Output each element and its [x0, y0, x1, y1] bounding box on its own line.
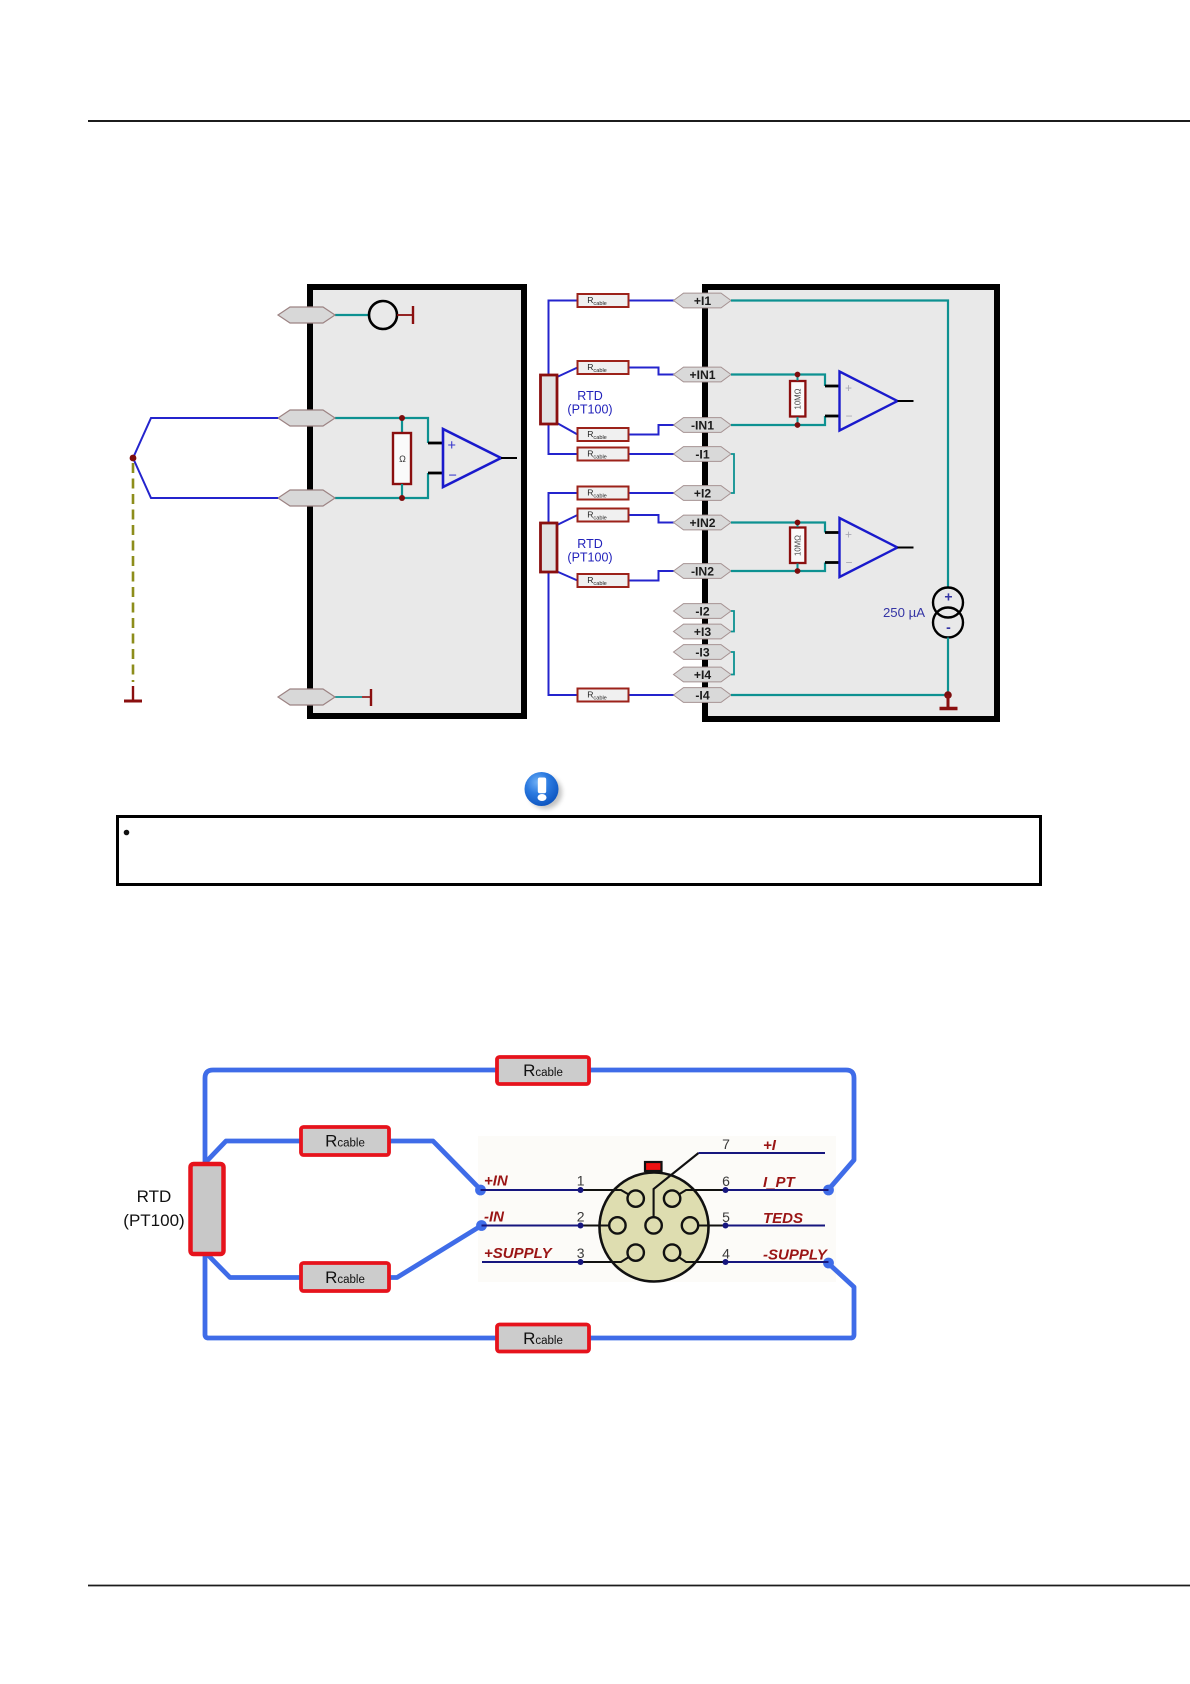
wire black pin2 lead — [581, 1224, 618, 1226]
resistor 10MOhm R2 — [790, 528, 805, 564]
svg-text:(PT100): (PT100) — [567, 403, 612, 417]
svg-text:(PT100): (PT100) — [567, 551, 612, 565]
module box U2 (right DAQ block) — [705, 287, 997, 719]
wire black pin6 lead — [672, 1190, 725, 1199]
net tag -IN1 — [674, 418, 732, 433]
top horizontal rule — [88, 120, 1190, 122]
junction node B — [399, 495, 405, 501]
wire blue top loop (Rcable top run) — [205, 1070, 854, 1190]
resistor Rcable8 (-I4 row) — [578, 689, 629, 702]
wire teal resistor bottom to node B — [401, 484, 403, 498]
net tag -IN2 — [674, 564, 732, 579]
junction pin6 dot — [723, 1187, 729, 1193]
wire blue Rcable7 to -IN2 tag — [629, 571, 677, 581]
pin 2 — [609, 1217, 625, 1233]
wire black pin3 lead — [581, 1253, 636, 1262]
pin 4 — [664, 1244, 680, 1260]
wire teal -I2 to +I3 link — [731, 611, 734, 632]
junction pin4 dot — [723, 1259, 729, 1265]
junction -IN1 node — [795, 422, 801, 428]
RTD2 sensor (PT100) — [541, 523, 558, 572]
note text box — [118, 817, 1041, 885]
junction pin1 dot — [578, 1187, 584, 1193]
connector key mark — [645, 1162, 662, 1171]
svg-text:6: 6 — [722, 1173, 730, 1189]
op-amp U1A — [443, 429, 501, 487]
wire teal -IN2 to amp2 — [731, 563, 825, 572]
wire black stub amp2 minus — [825, 561, 840, 564]
wire blue sensor plus lead — [133, 418, 278, 458]
bullet point — [124, 830, 130, 836]
wire blue Rcable3 to -IN1 tag — [629, 425, 677, 435]
wire black amp1 output — [898, 400, 914, 402]
wire blue RTD2 top to Rcable row6 — [557, 515, 578, 525]
wire blue Rcable4 to -I1 tag — [629, 453, 677, 455]
net tag +I1 — [674, 293, 732, 308]
junction ground node — [944, 691, 952, 699]
net tag +I4 — [674, 667, 732, 682]
junction +IN1 node — [795, 372, 801, 378]
wire blue RTD bottom to Rcable lower-left — [205, 1252, 301, 1278]
wire blue bottom loop (Rcable bottom run) — [205, 1254, 854, 1338]
svg-text:(PT100): (PT100) — [123, 1211, 184, 1230]
wire teal -I3 to +I4 link — [731, 652, 734, 675]
wire navy pin3 row left — [482, 1261, 581, 1263]
connector pad P4 — [278, 689, 335, 705]
svg-text:RTD: RTD — [577, 389, 602, 403]
wire black pin1 lead — [581, 1190, 636, 1199]
svg-text:+SUPPLY: +SUPPLY — [484, 1245, 554, 1262]
wire black opamp output — [501, 457, 517, 459]
svg-text:+: + — [944, 589, 952, 605]
wire blue Rcable1 to +I1 tag — [629, 300, 677, 302]
svg-text:-I2: -I2 — [695, 604, 709, 618]
svg-text:+I: +I — [763, 1137, 777, 1154]
wire blue RTD1 bottom to Rcable row3 — [557, 423, 578, 435]
resistor Rcable5 (+I2 row) — [578, 487, 629, 500]
wire blue Rcable2 to +IN1 tag — [629, 368, 677, 375]
wire blue Rcable upper-left to +IN node — [389, 1141, 481, 1190]
svg-text:TEDS: TEDS — [763, 1210, 803, 1227]
wire teal node A to opamp corner — [402, 418, 428, 443]
svg-text:10MΩ: 10MΩ — [794, 388, 803, 409]
net tag +IN1 — [674, 367, 732, 382]
svg-text:+I1: +I1 — [694, 294, 712, 308]
wire teal stub resistor R2 top — [797, 523, 799, 528]
wire teal +IN1 to amp1 — [731, 375, 825, 387]
resistor Rcable4 (-I1 row) — [578, 448, 629, 461]
resistor Rcable bottom — [497, 1325, 589, 1352]
wire teal -I4 return — [731, 694, 948, 696]
junction +IN node — [475, 1185, 486, 1196]
junction pin2 dot — [578, 1223, 584, 1229]
op-amp U2A — [840, 372, 898, 431]
svg-text:-IN1: -IN1 — [691, 418, 714, 432]
svg-text:−: − — [846, 556, 853, 570]
wire blue Rcable8 to -I4 tag — [629, 694, 677, 696]
wire black stub amp2 plus — [825, 531, 840, 534]
net tag -I4 — [674, 688, 732, 703]
wire blue RTD1 top to Rcable row2 — [557, 368, 578, 378]
svg-text:3: 3 — [577, 1245, 585, 1261]
svg-text:-IN2: -IN2 — [691, 564, 714, 578]
wire black pin7 lead — [654, 1153, 699, 1225]
svg-text:RTD: RTD — [577, 537, 602, 551]
svg-text:+: + — [845, 528, 852, 542]
bottom horizontal rule — [88, 1585, 1190, 1587]
svg-text:−: − — [846, 409, 853, 423]
note icon shadow — [529, 776, 562, 809]
net tag -I1 — [674, 447, 732, 462]
connector graphic pale panel — [478, 1136, 836, 1282]
terminator bar T2 — [370, 689, 372, 706]
wire teal +IN2 to amp2 — [731, 523, 825, 533]
wire teal pad4 stub — [335, 696, 362, 698]
wire blue ch1 bus +I1 to RTD1 top — [549, 301, 578, 376]
svg-text:1: 1 — [577, 1173, 585, 1189]
wire blue RTD1 bottom bus to -I1 Rcable — [549, 424, 578, 454]
current source I1 250uA — [933, 588, 963, 618]
resistor Rcable lower-left — [301, 1263, 389, 1291]
note icon exclamation — [538, 778, 546, 794]
wire teal pad2 to node A — [335, 417, 402, 419]
wire blue Rcable5 to +I2 tag — [629, 492, 677, 494]
wire black pin5 lead — [690, 1224, 726, 1226]
wire navy pin4 row right — [726, 1261, 829, 1263]
wire teal +I1 to current source bus — [731, 301, 948, 588]
wire blue Rcable lower-left to -IN node — [389, 1226, 482, 1278]
svg-text:4: 4 — [722, 1246, 730, 1262]
resistor Rcable upper-left — [301, 1127, 389, 1155]
wire blue RTD2 bottom to Rcable row7 — [557, 572, 578, 581]
wire teal stub resistor R1 top — [797, 375, 799, 381]
wire navy pin1 row left — [481, 1189, 581, 1191]
junction pin5 dot — [723, 1223, 729, 1229]
resistor Rcable2 (+IN1 row) — [578, 361, 629, 374]
wire black amp2 output — [898, 547, 914, 549]
RTD1 sensor (PT100) — [541, 375, 558, 424]
svg-text:+: + — [448, 438, 456, 454]
net tag -I2 — [674, 604, 732, 619]
pin 7 center — [645, 1217, 661, 1233]
svg-text:-I3: -I3 — [695, 645, 709, 659]
wire navy pin7 row +I — [699, 1152, 826, 1154]
meter circle M1 — [369, 301, 397, 329]
wire navy pin2 row left — [482, 1225, 581, 1227]
RTD sensor body — [191, 1164, 224, 1254]
wire blue RTD top to Rcable upper-left — [205, 1141, 301, 1163]
svg-text:+I3: +I3 — [694, 625, 712, 639]
wire blue ch2 bus +I2 to RTD2 top — [549, 493, 578, 523]
op-amp U2B — [840, 518, 898, 577]
connector body M12 — [600, 1173, 709, 1282]
wire dashed shield — [132, 463, 135, 682]
svg-text:+IN: +IN — [484, 1173, 509, 1190]
svg-text:-SUPPLY: -SUPPLY — [763, 1247, 829, 1264]
wire teal -IN1 to amp1 — [731, 416, 825, 425]
wire black pin4 lead — [672, 1253, 725, 1262]
wire black stub to opamp plus — [428, 442, 444, 445]
junction I_PT node — [823, 1185, 834, 1196]
pin 6 — [664, 1190, 680, 1206]
resistor Rcable6 (+IN2 row) — [578, 509, 629, 522]
svg-text:-: - — [946, 619, 951, 635]
pin 5 — [682, 1217, 698, 1233]
resistor Rcable7 (-IN2 row) — [578, 574, 629, 587]
svg-text:+IN1: +IN1 — [689, 368, 715, 382]
svg-text:-I1: -I1 — [695, 447, 709, 461]
wire navy pin5 row right TEDS — [726, 1225, 826, 1227]
wire black stub amp1 minus — [825, 415, 840, 418]
junction sensor node — [130, 455, 137, 462]
wire dark red to terminator — [362, 696, 371, 698]
svg-text:+I2: +I2 — [694, 486, 712, 500]
wire black stub amp1 plus — [825, 385, 840, 388]
svg-text:2: 2 — [577, 1209, 585, 1225]
svg-text:5: 5 — [722, 1209, 730, 1225]
connector pad P1 — [278, 307, 335, 323]
net tag +IN2 — [674, 515, 732, 530]
ground GND2 — [947, 695, 950, 707]
wire teal current source to ground — [947, 638, 949, 696]
net tag +I2 — [674, 486, 732, 501]
resistor R-ohm — [393, 433, 411, 484]
wire blue RTD2 bottom bus to -I4 Rcable — [549, 572, 578, 695]
wire teal pad1 to meter — [335, 314, 369, 316]
net tag +I3 — [674, 624, 732, 639]
svg-text:Ω: Ω — [399, 454, 406, 464]
junction -IN node — [476, 1220, 487, 1231]
module box U1 (left DAQ block) — [310, 287, 524, 716]
svg-text:7: 7 — [722, 1136, 730, 1152]
note icon circle — [525, 772, 559, 806]
resistor Rcable1 (+I1 row) — [578, 294, 629, 307]
resistor Rcable top — [497, 1057, 589, 1084]
wire teal pad3 to node B — [335, 497, 402, 499]
junction -IN2 node — [795, 568, 801, 574]
svg-text:+: + — [845, 381, 852, 395]
wire teal node A to resistor top — [401, 418, 403, 434]
wire teal -I1 to +I2 link — [731, 454, 734, 493]
svg-text:-I4: -I4 — [695, 688, 709, 702]
wire navy pin6 row right — [726, 1189, 829, 1191]
svg-text:10MΩ: 10MΩ — [794, 535, 803, 556]
svg-text:I_PT: I_PT — [763, 1174, 797, 1191]
resistor 10MOhm R1 — [790, 381, 805, 417]
junction node A — [399, 415, 405, 421]
svg-text:+I4: +I4 — [694, 668, 712, 682]
ground GND1 — [132, 686, 134, 700]
svg-text:-IN: -IN — [484, 1209, 505, 1226]
connector pad P3 — [278, 490, 335, 506]
wire teal node B to opamp corner — [402, 473, 428, 498]
svg-text:+IN2: +IN2 — [689, 516, 715, 530]
junction +IN2 node — [795, 520, 801, 526]
net tag -I3 — [674, 645, 732, 660]
pin 1 — [628, 1190, 644, 1206]
wire blue Rcable6 to +IN2 tag — [629, 515, 677, 523]
svg-text:RTD: RTD — [137, 1187, 172, 1206]
junction pin3 dot — [578, 1259, 584, 1265]
wire black stub to opamp minus — [428, 472, 444, 475]
wire dark red meter to terminator — [397, 314, 413, 316]
resistor Rcable3 (-IN1 row) — [578, 428, 629, 441]
terminator bar T1 — [412, 306, 414, 324]
svg-text:−: − — [449, 468, 457, 484]
junction -SUPPLY node — [823, 1258, 834, 1269]
pin 3 — [628, 1244, 644, 1260]
connector pad P2 — [278, 410, 335, 426]
svg-text:250 µA: 250 µA — [883, 605, 925, 620]
wire blue sensor minus lead — [133, 458, 278, 498]
